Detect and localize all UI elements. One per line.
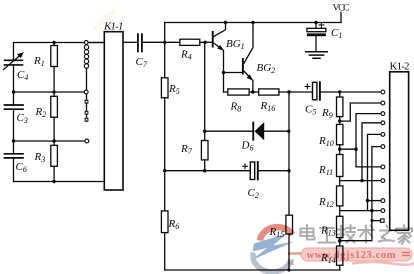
capacitor C6 [5,154,24,158]
wire: node E to C2 [205,170,251,172]
square contact [381,219,385,222]
resistor R15 [286,215,293,234]
wire: R14 to bottom rail [339,265,341,270]
node K junction (top of chain) [338,90,341,93]
wire: left rail top segment [14,43,105,61]
watermark logo [251,227,294,272]
contact circle 1 [381,90,385,94]
resistor R14 [337,246,343,265]
resistor R6 [161,211,168,233]
svg-text:M: M [287,258,294,267]
wire: node A down to R5 [164,42,166,78]
contact circle 6 [381,145,385,149]
resistor R4 [180,39,200,45]
K1-1 contact circle row2 [84,90,88,94]
wire: left rail C6 to row4 [13,158,15,182]
contact circle 3 [381,112,385,116]
plus sign C1 [319,23,324,28]
contact circle 7 [381,165,385,169]
node J3 junction [338,148,341,151]
diode D6 [252,122,288,141]
wire: J5 row to contact 10 [340,210,381,212]
wire: node K to R9 [339,92,341,97]
wire: row1 contact to K1-1 box [88,42,104,44]
resistor R5 [161,78,168,98]
wire: node C to BG1 base [205,41,212,43]
svg-text:K1-2: K1-2 [390,61,410,73]
node: R3 bottom junction [52,180,55,183]
wire: R4 to node C [200,41,205,43]
K1-1 wiper line with taps [85,94,88,122]
svg-text:K1-1: K1-1 [103,21,124,33]
wire: BG2 emitter down [252,81,254,93]
contact circle 4 [381,121,385,125]
wire: C7 to node A [143,41,165,43]
wire: J2 tap to contact 2 [340,103,381,121]
node F junction (BG2 base tap) [222,71,225,74]
resistor R3 [51,141,58,182]
node C junction [204,41,207,44]
wire: node I down to C2 row [288,131,290,171]
wire: J3 stub [340,148,356,150]
contact circle 2 [381,101,385,105]
wire: node F to BG2 base [224,72,242,74]
wire: J4 row to contact 8 [340,180,381,182]
wire: square contact stub [372,220,381,222]
resistor R8 [228,89,249,95]
capacitor C4 (variable) [4,52,24,69]
wire: row2 [14,91,85,93]
node H junction [287,90,290,93]
contact circle 9 [381,199,385,203]
node: tap B join [354,148,357,151]
node: BG1 collector on top rail [224,21,227,24]
wire: left rail row2 to C3 [13,92,15,105]
wire: R10 to J3 [339,145,341,155]
wire: R5 to node B [164,98,166,171]
resistor R13 [337,216,343,237]
wire: bottom rail [165,269,340,271]
wire: node D to D6 [205,130,253,132]
wire: coil to row2 contact [86,68,88,90]
wire: top rail to C1 [315,23,317,29]
plus sign C2 [243,164,248,169]
resistor R1 [51,43,58,93]
resistor R10 [337,124,343,144]
node J2 junction [338,119,341,122]
wire: node B down to R6 [164,171,166,211]
resistor R7 [201,141,208,160]
transistor BG1 [212,23,226,51]
node: tap C join [360,179,363,182]
plus sign C5 [305,84,310,89]
wire: node B to R7 bottom (C2 row) [165,170,205,172]
node J6 junction [338,239,341,242]
resistor R9 [337,97,343,117]
node J junction [287,169,290,172]
faint watermark streak near K1-1 [94,10,116,30]
wire: contact 9 [368,200,382,202]
wire: R12 to J5 [339,206,341,216]
wire: node C down to node D [204,42,206,131]
node: cross J5 vertical E [370,209,373,212]
node G junction (between R8 and R16) [251,90,254,93]
wire: row4 [14,181,105,183]
wire: C1 to ground [315,36,317,52]
wire: VCC stub [340,13,342,23]
K1-1 contact circle row3 [85,139,89,143]
resistor R11 [337,155,343,177]
wire: R16 to C5 [279,91,313,93]
wire: R11 to J4 [339,177,341,186]
wire: contact 1 [340,91,381,93]
node: R1-R2 junction [52,90,55,93]
wire: BG1 emitter column to R8 [224,91,228,93]
K1-1 box [104,32,123,190]
wire: K1-1 to C7 [123,41,137,43]
ground [306,52,327,59]
node: R15 rail junction [287,268,290,271]
capacitor C3 [5,105,24,109]
contact circle 8 [381,179,385,183]
wire: node H down to D6 row [288,92,290,131]
transistor BG2 [242,23,253,81]
contact circle 10 [381,209,385,213]
wire: BG1 emitter down [223,51,225,93]
svg-text:www.dgjs123.com: www.dgjs123.com [307,250,396,261]
node: C1 tap on top rail [314,21,317,24]
wire: R8 to node G [249,91,259,93]
capacitor C1 (electrolytic) [307,28,326,36]
wire: left rail C3 to row3 [13,109,15,141]
wire: R13 to J6 [339,238,341,246]
wire: node A to R4 [165,41,180,43]
wire: R9 to J2 [339,117,341,125]
K1-1 contact circle row1 [84,41,88,45]
wire: vertical D contact5 to J5 [368,134,382,210]
wire: vertical C to contact 4 [362,123,381,181]
wire: vertical B contact3-contact7 [356,114,381,167]
wire: node J down to R15 [288,171,290,216]
node A junction [163,41,166,44]
wire: R15 to bottom rail [288,234,290,270]
node: tap D contact9 join [366,199,369,202]
K1-2 box [390,72,409,231]
wire: row3 [14,140,86,142]
watermark badge www.dgjs123.com [288,248,414,265]
node: R2-R3 junction [52,139,55,142]
capacitor C2 (electrolytic) [250,162,289,180]
wire: node D to R7 [204,131,206,140]
node E junction [203,169,206,172]
node: row2 left junction [12,90,15,93]
node: BG2 collector on top rail [251,21,254,24]
resistor R16 [259,89,279,95]
node: row3 left junction [12,139,15,142]
node B junction [163,169,166,172]
watermark text 电工技术之家 (drawn as strokes; no CJK font available) [301,225,413,244]
node I junction [287,130,290,133]
contact circle 5 [381,133,385,137]
wire: J6 to vertical E up to contact 6 [340,147,381,241]
wire: left rail row3 to C6 [13,141,15,154]
wire: top rail [165,22,341,24]
K1-1 coil bubbles [84,45,88,68]
svg-text:VCC: VCC [333,4,350,14]
node: R1 top junction [52,41,55,44]
wire: left rail C4 to row2 [13,65,15,92]
node: square tap join [371,219,374,222]
node D junction [203,130,206,133]
wire: R6 to bottom rail [164,233,166,270]
capacitor C5 (electrolytic) [313,82,340,100]
resistor R2 [51,92,58,141]
wire: R7 to C2 row [204,160,206,171]
resistor R12 [337,186,343,206]
wire: node A up to top rail [164,23,166,43]
capacitor C7 [138,34,142,51]
